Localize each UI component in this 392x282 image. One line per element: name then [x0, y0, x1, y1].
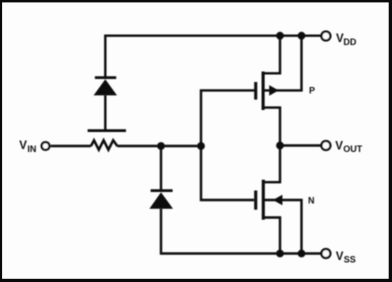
- terminal VDD: [321, 32, 330, 41]
- wire VIN to resistor: [51, 145, 91, 147]
- diode D2 (VSS to input): [149, 146, 173, 209]
- node VDD-body junction: [298, 32, 306, 40]
- terminal VSS: [321, 249, 330, 258]
- svg-text:V: V: [335, 141, 343, 153]
- wire D2 anode to bottom rail: [161, 209, 322, 254]
- diode D1 (input to VDD): [88, 78, 126, 131]
- label VIN: [19, 140, 36, 154]
- wire node A to node B: [161, 145, 201, 147]
- svg-text:N: N: [308, 196, 315, 206]
- svg-text:P: P: [309, 86, 315, 96]
- svg-text:OUT: OUT: [343, 144, 363, 154]
- label VDD: [336, 33, 357, 47]
- wire resistor to node A: [118, 145, 162, 147]
- wire node B to P gate: [201, 90, 254, 146]
- node VSS-source junction: [276, 250, 284, 258]
- node VSS-body junction: [298, 250, 306, 258]
- label VSS: [336, 251, 356, 265]
- node VDD-drain junction: [276, 32, 284, 40]
- label VOUT: [335, 141, 363, 155]
- transistor P (p-channel MOSFET): [256, 36, 302, 146]
- transistor N (n-channel MOSFET): [256, 146, 302, 254]
- terminal VIN: [42, 142, 50, 150]
- resistor R1: [91, 140, 118, 149]
- node B (junction dot): [197, 142, 205, 150]
- node VOUT junction: [276, 142, 284, 150]
- svg-text:DD: DD: [343, 37, 356, 47]
- svg-text:V: V: [336, 251, 344, 263]
- svg-text:IN: IN: [27, 144, 36, 154]
- wire D1 cathode to top rail corner: [105, 36, 321, 78]
- node A (junction dot): [157, 142, 165, 150]
- svg-text:SS: SS: [344, 255, 356, 265]
- terminal VOUT: [321, 141, 330, 150]
- wire node B to N gate: [201, 146, 254, 200]
- wire VOUT: [280, 144, 322, 146]
- svg-text:V: V: [19, 140, 27, 152]
